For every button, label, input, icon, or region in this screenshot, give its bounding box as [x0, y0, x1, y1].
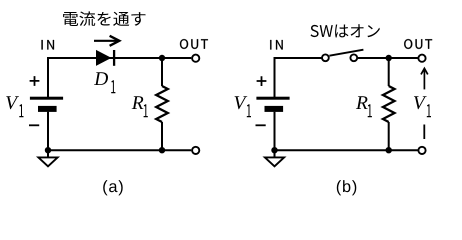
- node: bottom junction (b): [386, 147, 392, 153]
- label + (b): [257, 76, 267, 86]
- label (a): [103, 180, 123, 195]
- label R1 (a): [132, 96, 148, 117]
- label IN (b): [270, 40, 283, 50]
- current-direction arrow over D1: [94, 36, 119, 46]
- label V1 (a): [6, 96, 23, 117]
- terminal: OUT return (a): [192, 147, 199, 154]
- diode D1: [96, 50, 114, 66]
- label IN (a): [42, 40, 55, 50]
- wire: battery negative to bottom rail (b): [274, 112, 276, 151]
- battery V1 (a): [30, 97, 63, 112]
- annotation: 電流を通す (passes current): [63, 11, 145, 26]
- terminal: OUT top (b): [418, 55, 425, 62]
- label D1: [94, 72, 115, 93]
- wire: bottom rail (a): [48, 149, 191, 151]
- label R1 (b): [356, 96, 372, 117]
- node: bottom junction (a): [159, 147, 165, 153]
- resistor R1 (a): [156, 58, 168, 150]
- label − (b): [256, 124, 266, 126]
- node: top output junction (b): [386, 55, 392, 61]
- label − (a): [29, 124, 39, 126]
- ground (b): [265, 150, 284, 166]
- wire: IN corner to switch (b): [275, 58, 322, 98]
- label OUT (b): [404, 39, 432, 49]
- wire: IN corner to top rail (a): [48, 58, 191, 98]
- output voltage arrow (b): [421, 68, 428, 89]
- battery V1 (b): [256, 97, 289, 112]
- ground (a): [38, 150, 57, 166]
- node: top output junction (a): [159, 55, 165, 61]
- wire: bottom rail (b): [275, 149, 418, 151]
- node: ground junction (a): [45, 147, 51, 153]
- wire: switch to OUT (b): [358, 57, 418, 59]
- label V1 (b): [235, 96, 252, 117]
- node: ground junction (b): [271, 147, 277, 153]
- label OUT (a): [180, 39, 208, 49]
- label + (a): [30, 76, 40, 86]
- terminal: OUT return (b): [418, 147, 425, 154]
- label V1 output (b): [414, 96, 431, 117]
- output voltage reference dash (b): [423, 125, 425, 140]
- label (b): [337, 180, 357, 195]
- switch SW (closed-throw SPST, on): [322, 50, 363, 61]
- wire: battery negative to bottom rail (a): [47, 112, 49, 151]
- resistor R1 (b): [383, 58, 395, 150]
- terminal: OUT top (a): [192, 55, 199, 62]
- annotation: SWはオン (SW is on): [311, 24, 380, 37]
